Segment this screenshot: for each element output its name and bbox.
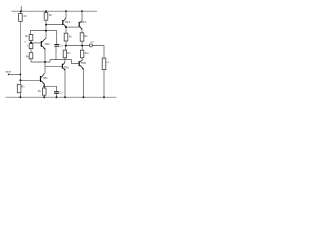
resistor R5 feedback upper	[29, 35, 33, 41]
junction dot ground TR5	[64, 96, 66, 98]
svg-text:input: input	[5, 70, 11, 74]
junction dot driver node	[44, 61, 46, 63]
loudspeaker load box	[102, 58, 106, 70]
junction dot rail-R1	[20, 10, 22, 12]
wire input lead	[9, 73, 21, 75]
svg-text:xx: xx	[24, 42, 27, 44]
junction dot TR3 emitter	[65, 26, 67, 28]
junction dot rail-TR3	[65, 10, 67, 12]
svg-text:TR2: TR2	[44, 42, 50, 46]
svg-text:R3: R3	[21, 85, 25, 89]
junction dot rail-TR4	[81, 10, 83, 12]
junction dot bias TR2 base	[30, 42, 32, 44]
junction dot TR1 base node	[19, 79, 21, 81]
wire C4 to ground	[56, 93, 58, 97]
wire TR2 emitter vertical / TR1 collector vertical	[44, 50, 46, 73]
svg-text:TR6: TR6	[81, 61, 87, 65]
junction dot bus left	[65, 45, 67, 47]
wire TR5 base	[45, 65, 62, 67]
transistor TR2	[41, 38, 46, 50]
svg-text:R2: R2	[49, 13, 53, 17]
wire R4 to ground	[43, 95, 45, 97]
junction dot bus right	[81, 45, 83, 47]
svg-text:TR4: TR4	[81, 20, 87, 24]
svg-text:R10: R10	[85, 51, 90, 55]
svg-text:o/p: o/p	[91, 41, 95, 43]
junction dot input terminal	[8, 74, 10, 76]
wire supply stub top-left	[20, 6, 22, 11]
capacitor C4 plates	[54, 91, 59, 92]
wire node to capacitor C3 top	[46, 31, 57, 45]
junction dot feedback node	[45, 30, 47, 32]
wire TR3 collector to rail	[65, 11, 67, 18]
wire TR1 emitter node to R4	[43, 86, 45, 88]
resistor R7 emitter TR3	[64, 33, 68, 41]
wire output bus	[64, 45, 89, 47]
transistor TR3	[62, 18, 66, 27]
junction dot ground C4	[56, 96, 58, 98]
wire feedback horizontal	[30, 31, 46, 35]
wire R7 to output bus	[65, 41, 67, 46]
wire load to ground	[103, 70, 105, 98]
wire left column vertical	[19, 11, 21, 13]
junction dot ground R4	[43, 96, 45, 98]
resistor R4 emitter TR1	[42, 88, 46, 95]
svg-text:R1: R1	[24, 14, 28, 18]
resistor R8 emitter TR4	[80, 33, 84, 41]
transistor TR6	[79, 60, 84, 70]
wire R9 to TR5 collector	[64, 58, 66, 62]
svg-text:C3: C3	[60, 44, 64, 48]
transistor TR1	[40, 73, 45, 86]
wire TR1 base line	[20, 79, 40, 81]
wire TR2 base	[31, 42, 41, 44]
wire R8 to output bus	[81, 41, 83, 45]
junction dot R2 base node	[45, 24, 47, 26]
wire output to load corner	[92, 46, 104, 59]
wire bottom ground rail	[6, 96, 117, 98]
svg-text:LS: LS	[107, 62, 110, 64]
junction dot ground TR6	[83, 96, 85, 98]
wire TR6 emitter to ground	[83, 70, 85, 98]
wire TR5 emitter to ground	[64, 71, 66, 98]
transistor TR4	[79, 21, 83, 30]
svg-text:x: x	[27, 44, 29, 47]
svg-text:R7: R7	[69, 34, 73, 38]
svg-text:TR1: TR1	[42, 76, 48, 80]
wire bus to R9	[64, 46, 66, 51]
wire capacitor C3 bottom lead	[55, 47, 57, 60]
junction dot TR1 emitter	[43, 85, 45, 87]
svg-text:TR5: TR5	[64, 66, 70, 70]
resistor R6 bias middle box	[29, 44, 33, 49]
junction dot rail-R2	[45, 10, 47, 12]
transistor TR5	[62, 62, 66, 71]
wire bias chain bottom corner	[31, 59, 50, 62]
svg-text:R4: R4	[38, 89, 42, 93]
resistor R6b bias lower box	[29, 53, 33, 59]
output terminal circle	[89, 44, 92, 47]
svg-text:R8: R8	[84, 34, 88, 38]
wire TR3 emitter to R7	[65, 27, 67, 33]
svg-text:R9: R9	[67, 51, 71, 55]
wire bus to R10	[81, 46, 83, 51]
junction dot ground R3	[19, 96, 21, 98]
resistor R2	[44, 13, 48, 21]
wire bias chain middle joints	[30, 41, 32, 44]
junction dot input	[20, 74, 22, 76]
svg-text:R5: R5	[25, 34, 29, 38]
capacitor C3 plates	[54, 44, 59, 45]
wire top supply rail	[11, 10, 97, 12]
wire to TR6 base	[50, 60, 79, 64]
resistor R9 collector TR5	[63, 50, 66, 58]
wire TR3 emitter junction to TR4 base	[66, 26, 79, 28]
resistor R3 bottom-left bias	[17, 84, 21, 92]
wire R2 column vertical	[45, 11, 47, 13]
wire TR3 base from R2 node	[46, 24, 62, 26]
wire bias chain between boxes	[30, 49, 32, 53]
wire R10 to TR6 collector	[81, 58, 83, 60]
resistor R1	[19, 14, 23, 22]
svg-text:C4: C4	[59, 91, 63, 95]
wire TR4 collector to rail	[81, 11, 83, 20]
wire emitter node to C4	[44, 86, 56, 91]
junction dot ground load	[103, 96, 105, 98]
svg-text:TR3: TR3	[65, 20, 71, 24]
resistor R10 collector TR6	[80, 50, 83, 58]
wire TR4 emitter to R8	[81, 29, 83, 33]
